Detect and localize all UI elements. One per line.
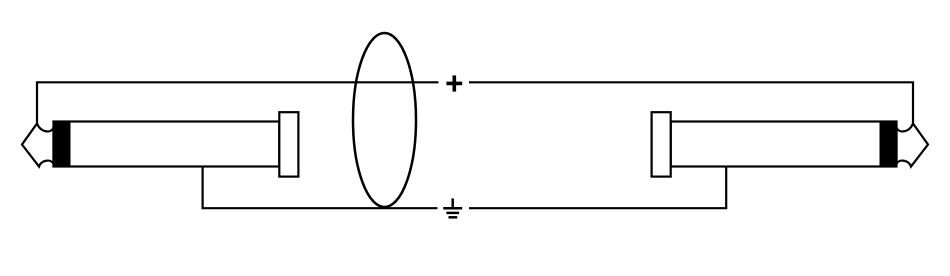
right plug tip <box>897 124 929 167</box>
left plug tip <box>22 124 54 167</box>
wire: bottom ground conductor, left segment (left plug sleeve to ground symbol) <box>203 166 438 209</box>
plus sign (hot conductor label) <box>446 75 462 91</box>
cable shield (cross-section ellipse) <box>353 33 416 207</box>
right plug (1/4 inch TS jack) <box>652 112 928 176</box>
left plug sleeve body <box>54 122 280 167</box>
wire: top signal conductor, right segment (plus sign to right plug tip) <box>469 82 913 123</box>
left plug (1/4 inch TS jack) <box>22 112 298 176</box>
wire: bottom ground conductor, right segment (ground symbol to right plug sleeve) <box>469 166 726 209</box>
right plug collar <box>652 112 671 176</box>
ground (earth) symbol <box>443 198 462 217</box>
right plug insulator ring (black band) <box>880 122 897 167</box>
right plug sleeve body <box>671 122 897 167</box>
left plug insulator ring (black band) <box>54 122 71 167</box>
wire: top signal conductor, left segment (left plug tip to plus sign) <box>37 82 439 123</box>
left plug collar <box>279 112 298 176</box>
